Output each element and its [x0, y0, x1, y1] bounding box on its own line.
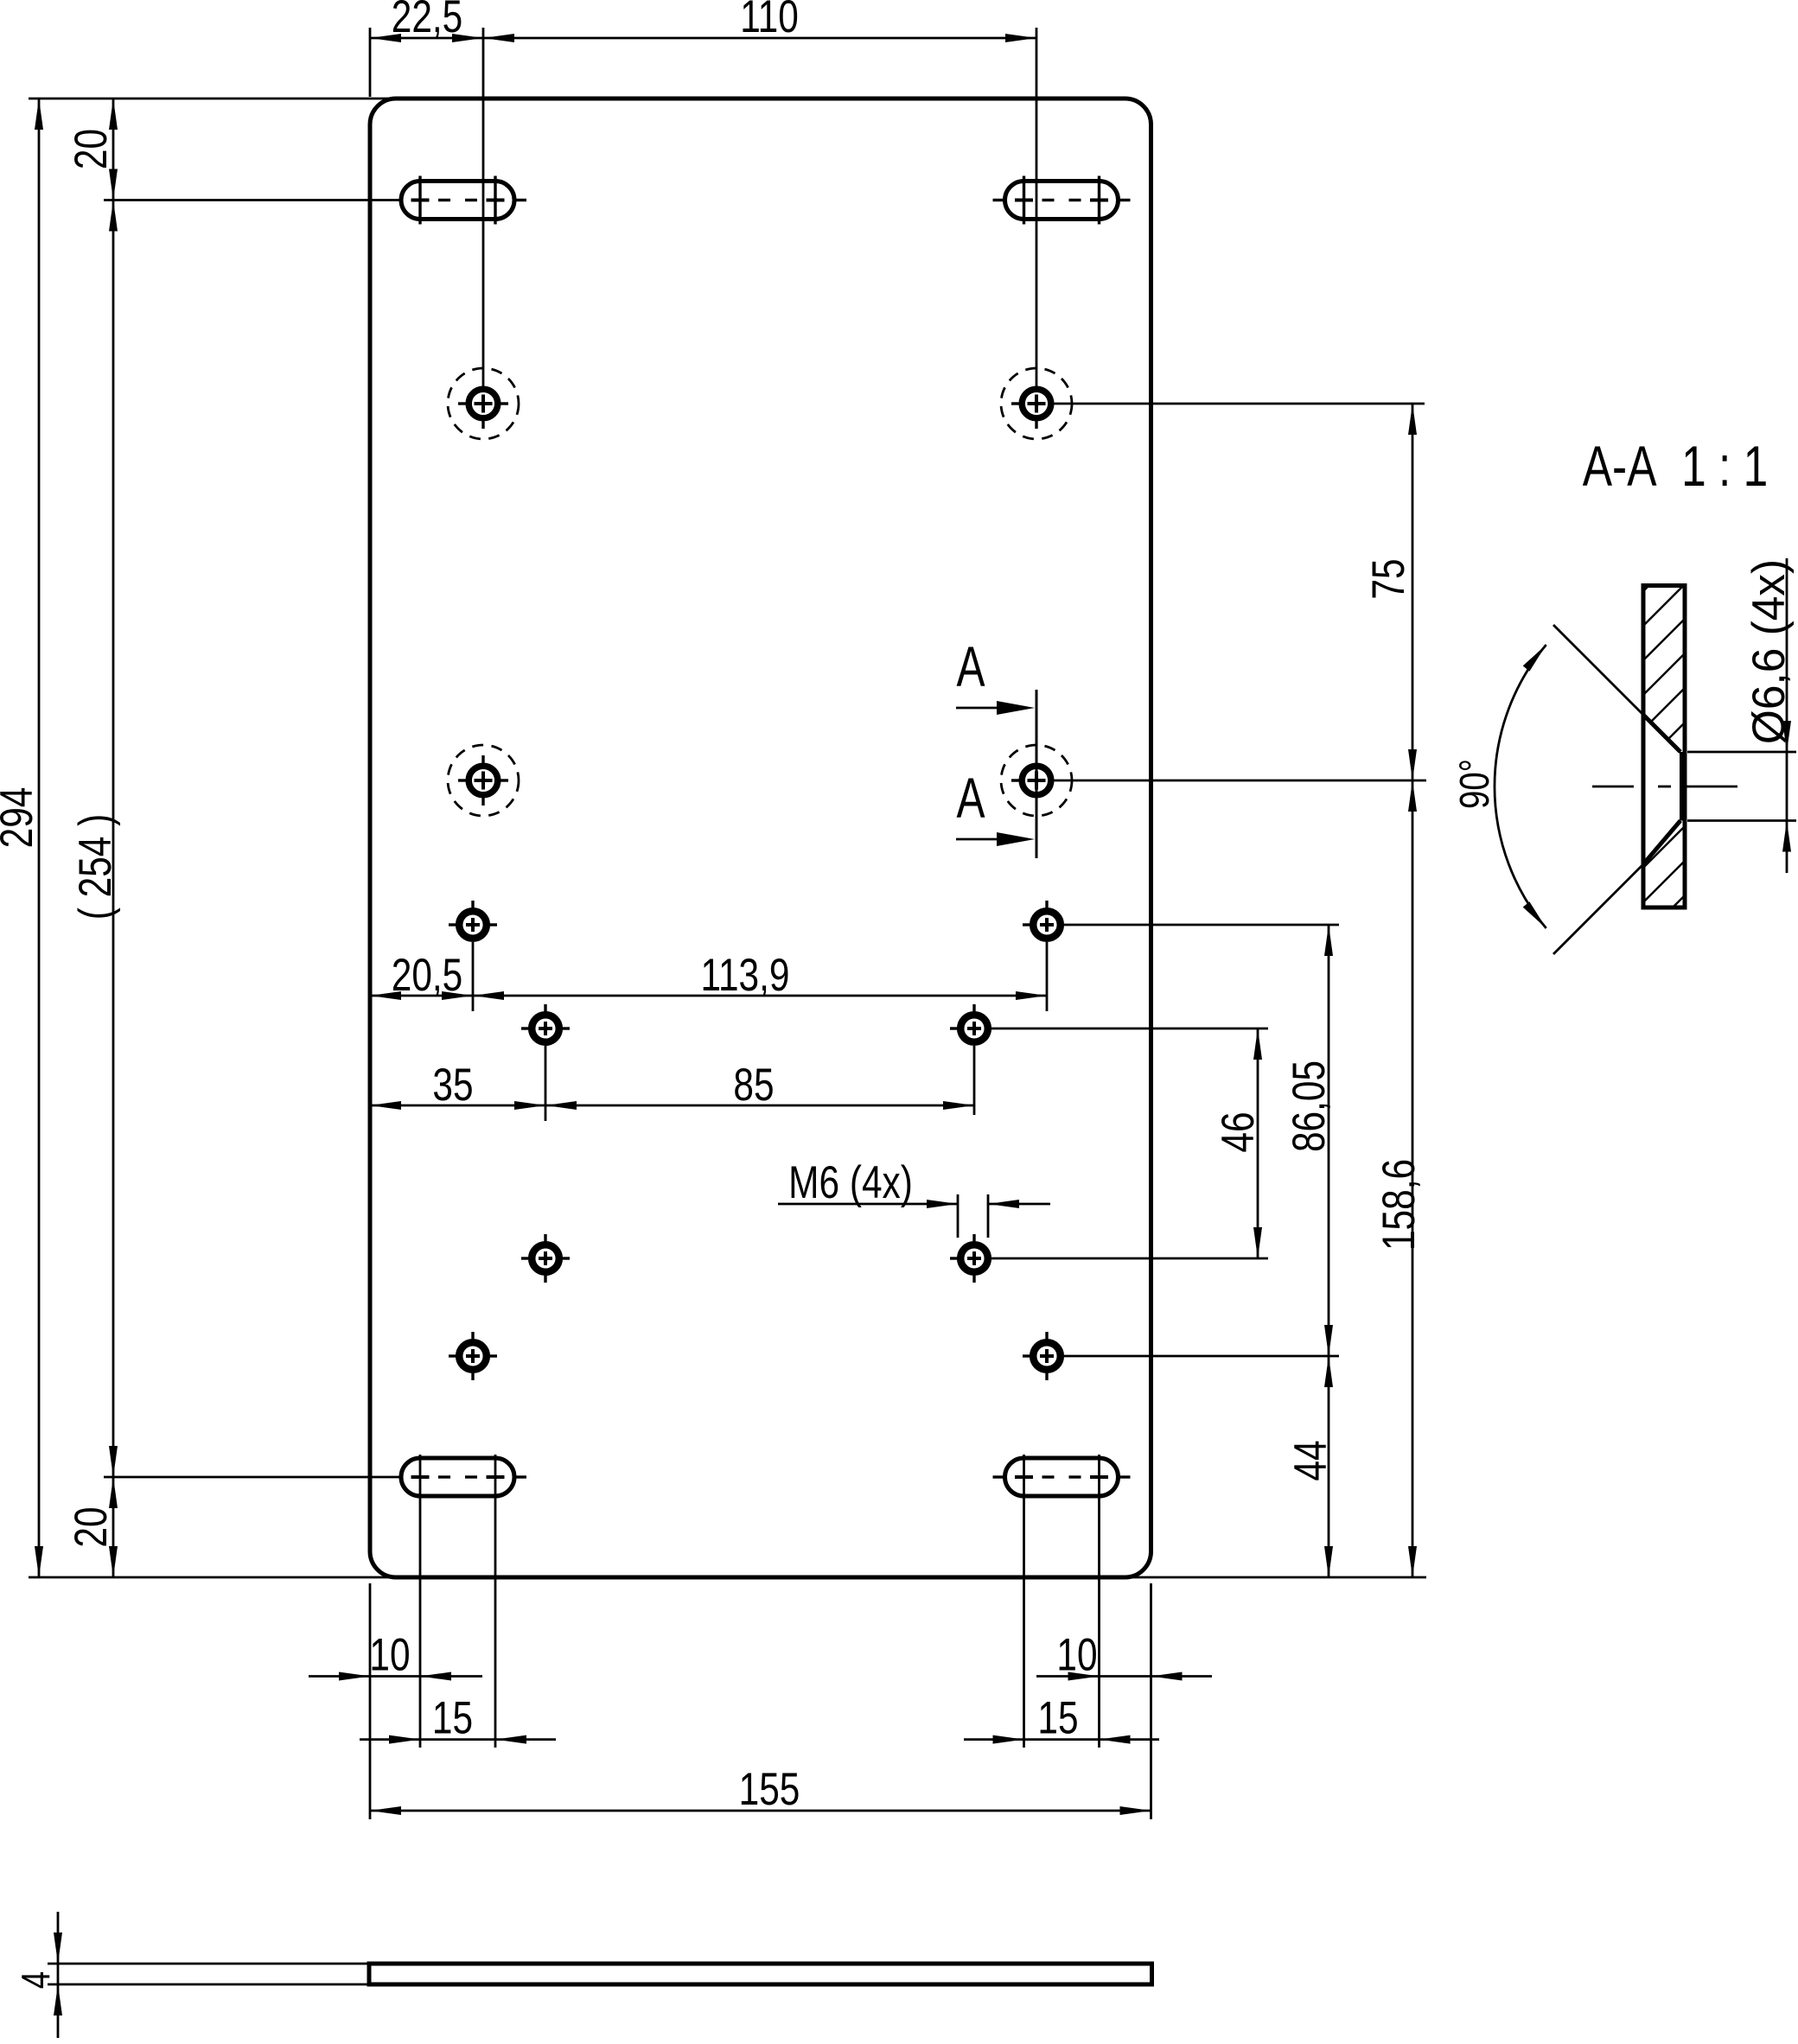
svg-text:113,9: 113,9: [701, 951, 790, 1002]
svg-text:A: A: [956, 767, 985, 831]
svg-text:20: 20: [67, 129, 118, 169]
svg-text:90°: 90°: [1452, 759, 1498, 809]
svg-text:20: 20: [67, 1506, 118, 1547]
svg-text:4: 4: [13, 1971, 58, 1989]
svg-text:Ø6,6 (4x): Ø6,6 (4x): [1744, 559, 1795, 744]
svg-text:20,5: 20,5: [392, 951, 463, 1002]
svg-text:( 254 ): ( 254 ): [71, 814, 122, 920]
svg-text:110: 110: [740, 0, 799, 42]
svg-text:44: 44: [1286, 1440, 1337, 1480]
svg-text:15: 15: [432, 1693, 473, 1744]
svg-text:75: 75: [1364, 558, 1415, 599]
svg-text:294: 294: [0, 787, 42, 849]
svg-text:158,6: 158,6: [1374, 1159, 1425, 1251]
svg-text:86,05: 86,05: [1285, 1060, 1336, 1152]
svg-text:M6 (4x): M6 (4x): [788, 1158, 913, 1209]
svg-text:A-A 1 : 1: A-A 1 : 1: [1583, 434, 1769, 499]
svg-text:155: 155: [739, 1765, 800, 1816]
svg-text:22,5: 22,5: [392, 0, 463, 42]
svg-text:15: 15: [1037, 1693, 1078, 1744]
svg-text:46: 46: [1214, 1111, 1265, 1152]
svg-text:A: A: [956, 635, 985, 699]
svg-text:10: 10: [1056, 1630, 1097, 1681]
svg-text:35: 35: [432, 1060, 473, 1111]
svg-text:10: 10: [369, 1630, 410, 1681]
svg-text:85: 85: [733, 1060, 774, 1111]
